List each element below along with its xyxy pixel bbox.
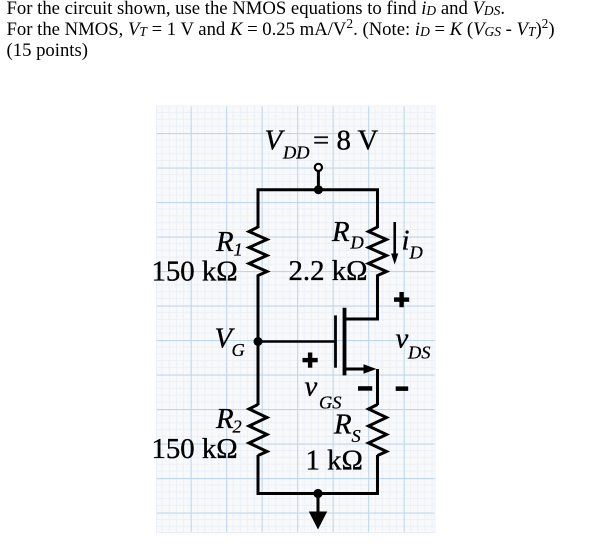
junction dot ground node <box>313 489 322 498</box>
graph paper background <box>157 106 436 533</box>
ground <box>309 494 327 530</box>
wire RS to bottom rail <box>376 455 379 494</box>
transistor Q1 NMOS <box>336 308 345 376</box>
wire top rail <box>258 190 378 228</box>
junction dot VDD node <box>314 185 323 194</box>
problem statement text <box>7 0 555 61</box>
svg-text:S: S <box>352 426 361 446</box>
label RD <box>331 216 364 253</box>
wire RD to drain <box>344 275 378 320</box>
label minus vDS <box>396 386 409 391</box>
svg-text:D: D <box>350 233 364 253</box>
label VG <box>215 323 245 361</box>
wire left branch R1 to VG node <box>257 275 260 342</box>
svg-text:G: G <box>232 340 245 360</box>
svg-text:i: i <box>402 225 410 257</box>
label R1 <box>215 226 243 260</box>
label R2 <box>215 403 242 437</box>
resistor R2 <box>249 405 267 456</box>
label RS <box>333 409 361 447</box>
svg-text:DD: DD <box>282 143 310 163</box>
wire VG node to R2 <box>257 342 260 406</box>
svg-text:150 kΩ: 150 kΩ <box>152 256 238 288</box>
svg-text:2.2 kΩ: 2.2 kΩ <box>289 255 368 287</box>
resistor R1 <box>249 227 267 276</box>
wire source with arrow <box>345 364 378 405</box>
label plus vDS <box>394 292 409 307</box>
svg-text:= 8 V: = 8 V <box>313 125 379 157</box>
junction dot VG node <box>254 337 263 346</box>
svg-text:1 kΩ: 1 kΩ <box>306 445 363 477</box>
svg-text:R: R <box>331 216 350 248</box>
svg-text:R: R <box>215 226 234 258</box>
wire bottom rail <box>258 456 378 494</box>
svg-text:DS: DS <box>407 342 430 362</box>
wire gate <box>258 340 335 343</box>
resistor RD <box>369 227 387 276</box>
label vGS <box>305 371 342 413</box>
label iD <box>402 225 423 263</box>
terminal VDD (open circle) <box>315 164 322 171</box>
svg-text:D: D <box>409 243 423 263</box>
label vDS <box>396 323 431 363</box>
label minus vGS <box>358 386 372 391</box>
label plus vGS <box>303 353 318 368</box>
wire VDD stem <box>317 172 320 190</box>
svg-text:v: v <box>396 323 409 355</box>
svg-text:R: R <box>333 409 352 441</box>
svg-text:v: v <box>305 371 318 403</box>
resistor RS <box>369 405 387 456</box>
current arrow iD <box>391 222 398 265</box>
svg-text:150 kΩ: 150 kΩ <box>152 433 238 465</box>
wire R2 to bottom rail <box>257 455 260 494</box>
svg-text:R: R <box>215 403 234 435</box>
label VDD = 8 V <box>265 125 379 163</box>
